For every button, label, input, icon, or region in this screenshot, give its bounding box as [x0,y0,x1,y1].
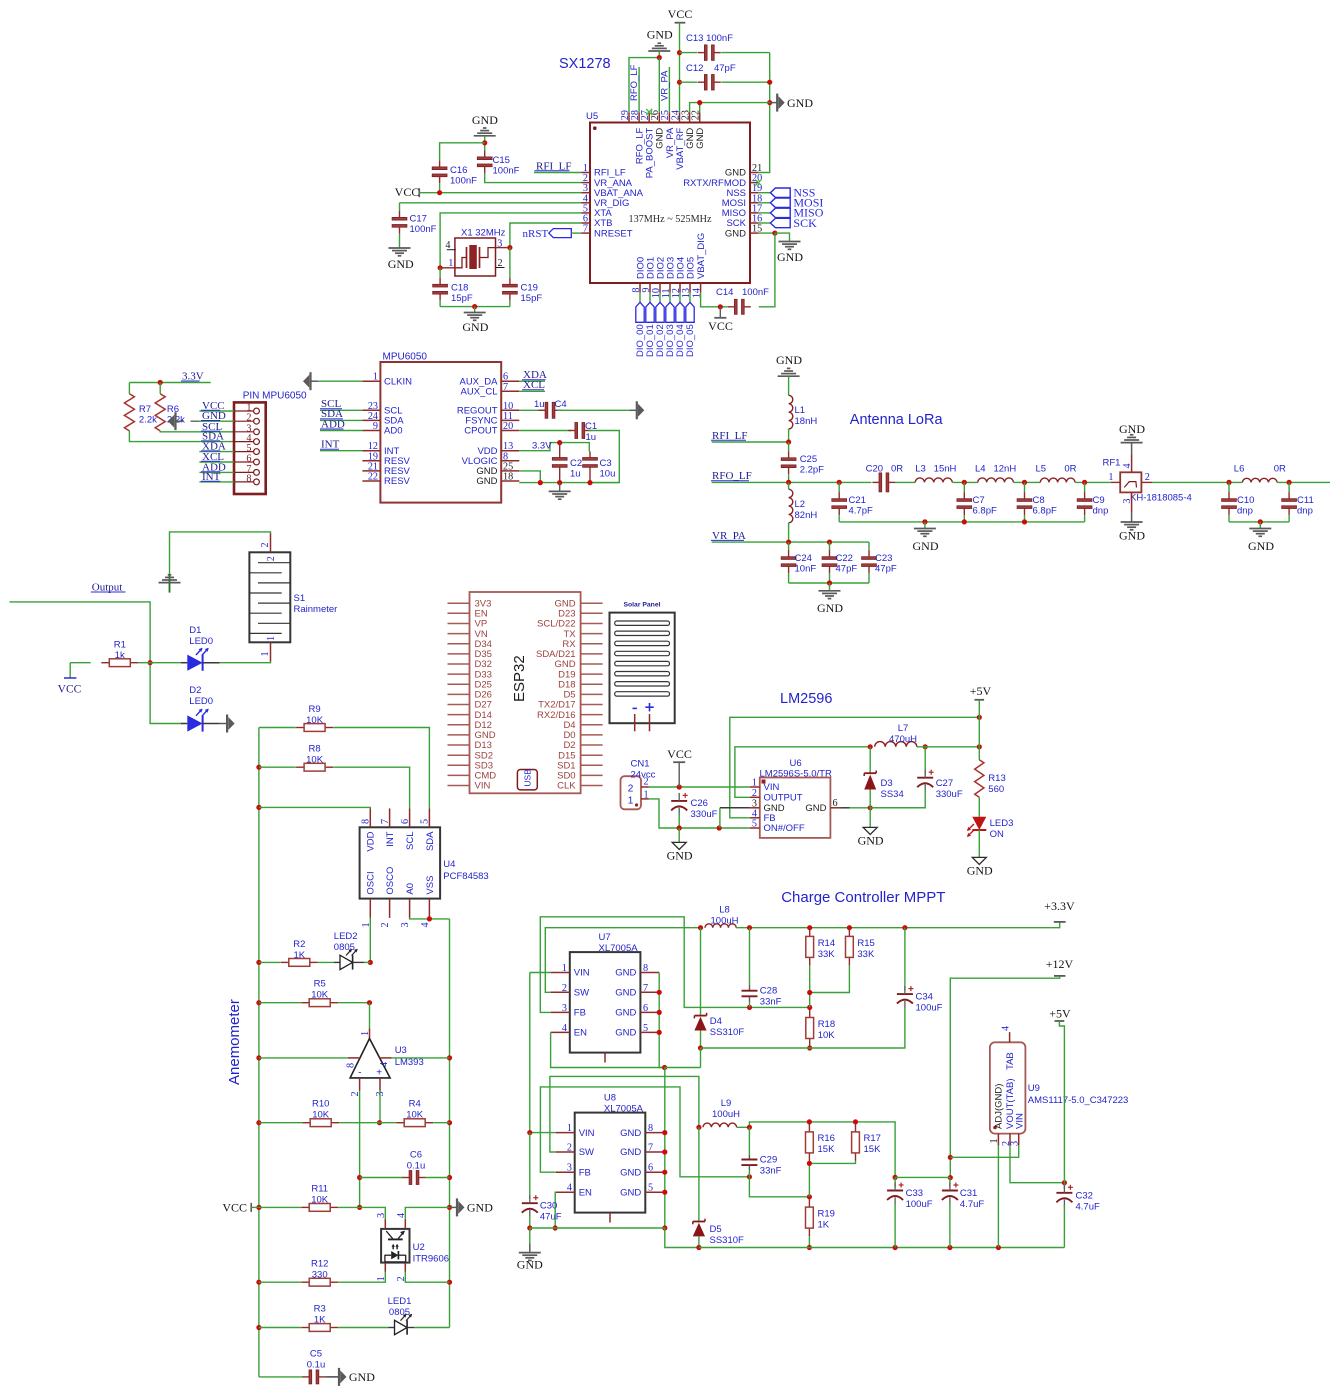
svg-text:15K: 15K [818,1144,836,1155]
svg-text:4.7uF: 4.7uF [960,1199,984,1210]
U8 XL7005A [575,1113,646,1213]
svg-text:10K: 10K [406,1110,424,1121]
svg-text:6: 6 [246,454,251,465]
svg-text:7: 7 [503,382,508,393]
svg-text:R15: R15 [857,938,874,949]
U4 pin 4 VSS [428,899,430,918]
U1 pin 19 RESV [362,460,380,462]
svg-text:2: 2 [260,542,271,547]
diode D4 SS310F [700,928,702,1016]
optocoupler U2 ITR9606 [381,1229,409,1263]
svg-text:GND: GND [517,1258,543,1272]
ESP32 pin L1 3V3 [448,602,470,604]
svg-text:VDD: VDD [366,831,377,851]
wire U8 VIN [530,1132,556,1134]
wire U8 EN down to rail [554,1192,557,1228]
hier label DIO_04 [679,293,681,303]
ground below C30 [529,1228,531,1244]
svg-text:Charge Controller MPPT: Charge Controller MPPT [781,889,945,906]
J1 pin 3 SCL [254,429,260,435]
svg-text:ON#/OFF: ON#/OFF [764,823,805,834]
svg-text:47pF: 47pF [875,563,897,574]
RF1 pin 3 to ground below [1131,492,1133,511]
wire U4 OSCI down [369,918,371,963]
U1 pin 9 AD0 [362,430,380,432]
svg-text:L8: L8 [719,905,730,916]
U7 pin 6 GND [640,1011,659,1013]
svg-text:2.2k: 2.2k [139,414,157,425]
wire U9 ADJ to rail [997,1145,999,1247]
ESP32 pin R2 D23 [581,612,603,614]
svg-text:10K: 10K [311,1195,329,1206]
svg-text:FB: FB [574,1008,586,1019]
U1 pin 25 GND [501,470,519,472]
svg-text:D4: D4 [710,1016,722,1027]
connector CN1 24vcc [621,776,642,809]
ground arrow at D2 [220,723,228,725]
wire pin 26 GND [658,58,660,113]
U5 pin 23 GND [689,112,691,122]
svg-text:3: 3 [562,1003,567,1014]
svg-text:R12: R12 [311,1259,328,1270]
wire VCC to pin 3 [419,192,581,194]
ground arrow right of C12 [770,102,778,104]
svg-text:VIN: VIN [475,781,491,792]
resistor R7 2.2k [128,383,130,394]
svg-text:R11: R11 [311,1184,328,1195]
svg-text:GND: GND [620,1187,641,1198]
CN1 pin 1 [641,798,649,800]
wire pin 15 GND net [758,232,775,234]
U8 pin 3 FB [556,1171,575,1173]
wire pin 14 to VCC [701,293,721,307]
S1 pin 1 bottom [270,642,272,661]
U1 pin 11 FSYNC [501,419,519,421]
capacitor C2 1u [559,443,561,458]
capacitor C24 10nF [788,542,790,550]
wire GND pins 25 18 [519,471,540,483]
wire C10 C11 ground rail [1229,521,1289,523]
U1 pin 7 AUX_CL [501,390,519,392]
label XCL from U1 [519,390,545,392]
switch S1 Rainmeter [249,552,290,642]
svg-text:OSCO: OSCO [385,867,396,895]
svg-text:C4: C4 [555,399,567,410]
J1 pin 2 GND [254,418,260,424]
svg-text:100uH: 100uH [712,1109,740,1120]
svg-text:D2: D2 [189,685,201,696]
LED2 0805 [334,961,340,963]
U7 pad stub [604,1053,606,1063]
U5 pin 9 DIO1 [649,283,651,293]
U5 pin 13 DIO5 [689,283,691,293]
inductor L8 100uH [698,925,703,930]
svg-text:1u: 1u [586,432,597,443]
capacitor C21 4.7pF [838,482,840,492]
U2 pin 1 [384,1263,386,1272]
svg-text:CN1: CN1 [631,759,650,770]
svg-text:VCC: VCC [708,319,733,333]
resistor R6 2.2k [159,383,161,394]
U5 pin 27 PA_BOOST [648,112,650,122]
capacitor C11 dnp [1288,482,1290,492]
svg-text:R4: R4 [409,1099,421,1110]
svg-text:15K: 15K [864,1144,882,1155]
svg-text:R16: R16 [818,1133,835,1144]
capacitor C10 dnp [1228,482,1230,492]
wire U6 pin6 GND net [840,807,849,809]
ESP32 pin L3 VP [448,623,470,625]
capacitor C5 0.1u [259,1376,303,1378]
ESP32 pin L16 SD2 [448,754,470,756]
resistor R10 10K [259,1122,302,1124]
ESP32 pin R1 GND [581,602,603,604]
svg-text:330: 330 [312,1270,328,1281]
svg-text:6: 6 [648,1163,653,1174]
resistor R13 560 [975,760,984,798]
svg-text:2: 2 [628,784,634,795]
U4 pin 8 VDD [369,808,371,827]
wire S1 pin1 to D1 [220,662,271,663]
svg-text:U4: U4 [443,859,455,870]
wire bottom rail right [699,1247,1065,1249]
svg-text:CPOUT: CPOUT [464,426,497,437]
svg-text:R5: R5 [314,979,326,990]
svg-text:AMS1117-5.0_C347223: AMS1117-5.0_C347223 [1028,1095,1129,1106]
svg-text:2: 2 [562,983,567,994]
capacitor C30 47uF [529,1133,531,1200]
svg-text:SS34: SS34 [881,789,904,800]
hier label DIO_05 [689,293,691,303]
svg-text:L6: L6 [1234,463,1245,474]
svg-text:1: 1 [360,1031,371,1036]
capacitor C20 0R [879,473,882,492]
svg-text:LM393: LM393 [395,1057,424,1068]
svg-text:3: 3 [376,1213,387,1218]
wire R16 R17 bottoms [808,1161,810,1197]
wire R11 to U2 pin3 [360,1207,386,1219]
wire +3.3V rail [736,922,1059,928]
svg-text:C3: C3 [600,458,612,469]
resistor R3 1K [259,1327,301,1329]
inductor L5 0R [1040,478,1075,482]
svg-text:LM2596: LM2596 [780,691,832,707]
resistor R1 1k [70,662,91,664]
U5 pin 4 VR_DIG [582,202,591,204]
resistor R8 10K [259,766,296,768]
diode D5 SS310F [698,1127,700,1221]
U5 pin 19 NSS [750,192,758,194]
capacitor C25 2.2pF [788,442,790,451]
svg-text:GND: GND [967,863,993,877]
svg-text:GND: GND [695,128,706,149]
svg-text:1: 1 [266,636,277,641]
wire VDD 3.3V [519,443,589,452]
J1 pin 1 VCC [254,408,260,414]
svg-text:4: 4 [379,1062,390,1067]
svg-text:GND: GND [467,1201,493,1215]
U1 pin 12 INT [362,450,380,452]
svg-text:SDA: SDA [425,831,436,851]
svg-text:18: 18 [503,472,513,483]
svg-text:33K: 33K [857,949,875,960]
J1 pin 6 XCL [254,459,260,465]
svg-text:ADJ(GND): ADJ(GND) [994,1084,1005,1129]
power 3.3V rail left [129,382,210,384]
hier label SCK [758,222,770,224]
connector J1 PIN MPU6050 [234,402,266,494]
U8 pin 4 EN [556,1191,575,1193]
J1 pin 5 XDA [254,449,260,455]
ground at pin 15 [779,241,801,243]
U8 pin 7 GND [645,1151,665,1153]
label XDA from U1 [519,380,545,382]
inductor L1 18nH [789,395,793,429]
wire C33 to C31 top [895,1176,950,1178]
svg-text:dnp: dnp [1237,505,1253,516]
svg-text:R3: R3 [314,1304,326,1315]
RF1 pin 1 [1111,481,1121,483]
svg-text:4.7uF: 4.7uF [1076,1202,1100,1213]
wire pin 6 XTB [510,223,582,248]
svg-text:560: 560 [988,784,1004,795]
regulator U9 AMS1117-5.0 [990,1042,1026,1133]
svg-text:SS310F: SS310F [710,1235,745,1246]
svg-text:XL7005A: XL7005A [604,1104,644,1115]
svg-text:GND: GND [349,1370,375,1384]
ESP32 pin R18 SD0 [581,774,603,776]
svg-text:GND: GND [647,28,673,42]
resistor R15 33K [848,928,850,936]
U5 pin 8 DIO0 [639,283,641,293]
svg-text:C10: C10 [1237,495,1254,506]
svg-text:GND: GND [725,228,746,239]
U3 pin 2 wire [359,1078,361,1091]
svg-text:6: 6 [833,798,838,809]
svg-text:ON: ON [990,829,1004,840]
ESP32 pin R17 SD1 [581,764,603,766]
svg-text:C24: C24 [795,553,812,564]
svg-text:USB: USB [523,769,533,787]
LED3 red [978,797,980,817]
svg-text:3: 3 [1010,1141,1021,1146]
svg-text:C18: C18 [451,283,468,294]
wire U7 FB net [540,917,809,1013]
wire Output net [9,602,182,724]
wire +5V to C32/VOUT [1059,1021,1064,1183]
wire pins 22 23 to GND arrow [690,103,770,113]
svg-text:D1: D1 [189,625,201,636]
U5 pin 28 RFO_LF [638,112,640,122]
U5 pin 1 RFI_LF [582,172,591,174]
svg-text:C14: C14 [716,287,733,298]
svg-text:DIO5: DIO5 [685,257,696,279]
svg-text:L1: L1 [795,405,806,416]
wire right vertical to pin 21 [758,53,769,173]
svg-text:+12V: +12V [1046,957,1074,971]
wire caps to ground [789,582,869,584]
resistor R19 1K [808,1199,810,1207]
resistor R12 330 [259,1281,301,1283]
wire L9 to divider rail [737,1122,896,1178]
U4 pin 7 INT [389,808,391,827]
svg-text:4: 4 [396,1213,407,1218]
U8 pin 6 GND [645,1171,665,1173]
ESP32 pin L11 D27 [448,704,470,706]
svg-text:0.1u: 0.1u [407,1161,426,1172]
svg-text:3: 3 [375,1091,386,1096]
wire U2 pin4 to GND arrow [405,1207,449,1219]
capacitor C9 dnp [1075,481,1111,483]
U5 SX1278 [590,123,750,284]
capacitor C7 6.8pF [952,481,978,483]
svg-text:C6: C6 [410,1150,422,1161]
svg-text:NRESET: NRESET [594,228,633,239]
svg-text:C26: C26 [691,798,708,809]
U5 pin 18 MOSI [750,202,758,204]
capacitor C3 10u [583,458,598,461]
svg-text:U7: U7 [599,932,611,943]
svg-text:6.8pF: 6.8pF [973,505,997,516]
U8 pin 1 VIN [556,1132,575,1134]
svg-text:VIN: VIN [574,968,590,979]
op-amp U3 LM393 [350,1039,390,1078]
svg-text:C28: C28 [760,986,777,997]
inductor L3 15nH [895,481,915,483]
svg-text:3: 3 [567,1163,572,1174]
ESP32 pin R5 RX [581,643,603,645]
svg-text:LED0: LED0 [189,636,213,647]
svg-text:47uF: 47uF [540,1212,562,1223]
svg-text:FB: FB [579,1167,591,1178]
U5 pin 22 GND [699,112,701,122]
svg-text:R18: R18 [818,1019,835,1030]
wire antenna filter ground rail [838,491,840,493]
svg-text:C8: C8 [1033,495,1045,506]
svg-text:1: 1 [644,790,649,801]
svg-text:C16: C16 [450,165,467,176]
svg-text:LED3: LED3 [990,818,1014,829]
ESP32 pin R11 TX2/D17 [581,704,603,706]
hier label MOSI [758,202,770,204]
resistor R17 15K [855,1124,857,1132]
U6 pin 3 GND [750,807,760,809]
svg-text:GND: GND [913,539,939,553]
svg-text:3: 3 [1122,499,1133,504]
resistor R14 33K [809,928,811,936]
svg-text:GND: GND [787,96,813,110]
label VR_PA antenna [712,541,869,543]
svg-text:10K: 10K [312,1110,330,1121]
ESP32 pin L14 GND [448,734,470,736]
U7 pin 5 GND [640,1031,659,1033]
svg-text:GND: GND [620,1128,641,1139]
svg-text:MPU6050: MPU6050 [383,352,428,363]
U9 pin 2 [1009,1134,1011,1146]
wire FB to R16 R19 node [749,1177,809,1197]
U6 pin 1 VIN [750,786,760,788]
wire pin 29 to GND net [629,58,659,113]
ESP32 pin L4 VN [448,633,470,635]
svg-text:dnp: dnp [1297,505,1313,516]
wire U8 GND vertical [664,1068,666,1229]
module ESP32 [470,592,581,793]
capacitor C22 47pF [829,542,831,550]
svg-text:SCL: SCL [405,832,416,850]
ESP32 pin L13 D12 [448,724,470,726]
U1 pin 13 VDD [501,450,519,452]
svg-text:R9: R9 [309,704,321,715]
svg-text:VBAT_DIG: VBAT_DIG [696,233,707,279]
hier label DIO_03 [669,293,671,303]
U5 pin 11 DIO3 [669,283,671,293]
svg-text:SS310F: SS310F [710,1027,745,1038]
U3 pin 3 wire [379,1078,381,1091]
U1 pin 1 CLKIN [362,380,380,382]
U4 pin 5 SDA [428,808,430,827]
label SCL to U1 [320,409,362,411]
U2 phototransistor symbol [388,1238,403,1240]
U5 pin 6 XTB [582,222,591,224]
U7 pin 4 EN [551,1031,570,1033]
svg-text:3.3V: 3.3V [532,441,552,452]
svg-text:100uF: 100uF [906,1199,933,1210]
wire U4 A0 VSS to right bus [410,918,450,919]
svg-text:C15: C15 [493,155,510,166]
resistor R5 10K [259,1002,301,1004]
svg-text:GND: GND [388,257,414,271]
wire VCC to pin 24 [679,23,681,113]
svg-text:33nF: 33nF [760,1166,782,1177]
wire ON/OFF rail [679,827,750,829]
svg-text:1: 1 [567,1123,572,1134]
ground triangle below C26 [678,828,680,842]
svg-text:C5: C5 [310,1349,322,1360]
ESP32 pin R16 D15 [581,754,603,756]
label RFI_LF antenna [712,441,789,443]
svg-text:C29: C29 [760,1155,777,1166]
U2 pin 4 [404,1220,406,1229]
svg-text:GND: GND [615,1028,636,1039]
U2 LED symbol [391,1251,398,1259]
svg-text:C22: C22 [836,553,853,564]
capacitor C16 100nF [440,143,485,160]
svg-text:SX1278: SX1278 [559,56,611,72]
svg-text:L4 12nH: L4 12nH [975,463,1016,474]
ESP32 pin L10 D26 [448,693,470,695]
capacitor C18 15pF [439,268,441,278]
U1 pin 10 REGOUT [501,409,519,411]
svg-text:6: 6 [643,1003,648,1014]
wire +12V to U9 VIN [950,976,1059,1178]
svg-text:VCC: VCC [58,684,82,696]
U1 MPU6050 [380,362,501,503]
ESP32 pin L8 D33 [448,673,470,675]
svg-text:GND: GND [620,1167,641,1178]
ground triangle below D3 [869,808,871,828]
J1 pin 7 ADD [254,470,260,476]
svg-text:330uF: 330uF [691,809,718,820]
U9 pin 3 [1018,1134,1020,1146]
svg-text:ITR9606: ITR9606 [413,1254,449,1265]
wire R6 to SCL row [160,430,234,433]
wire U6 OUTPUT to L7 rail [735,747,870,798]
svg-text:C7: C7 [973,495,985,506]
svg-text:R19: R19 [818,1209,835,1220]
ESP32 pin R9 D18 [581,683,603,685]
svg-text:X1 32MHz: X1 32MHz [461,228,506,239]
svg-text:8: 8 [246,473,251,484]
